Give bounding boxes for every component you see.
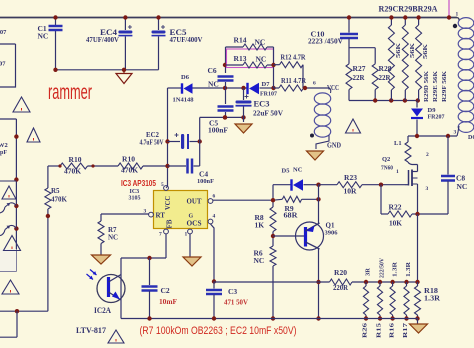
svg-text:NC: NC <box>208 80 219 89</box>
svg-text:OUT: OUT <box>187 197 202 206</box>
svg-text:NC: NC <box>256 55 267 64</box>
svg-text:100nF: 100nF <box>208 127 228 135</box>
svg-text:D5: D5 <box>282 168 291 175</box>
svg-text:W2: W2 <box>0 142 8 149</box>
svg-text:IC3 AP3105: IC3 AP3105 <box>121 178 156 188</box>
svg-text:R207: R207 <box>0 61 6 68</box>
svg-text:R29D 56K: R29D 56K <box>423 71 430 102</box>
svg-text:R20: R20 <box>334 268 347 277</box>
svg-text:R10: R10 <box>69 155 82 164</box>
svg-text:100nF: 100nF <box>197 178 214 185</box>
svg-text:56K: 56K <box>395 43 402 58</box>
svg-text:R5: R5 <box>51 187 60 195</box>
svg-text:Q1: Q1 <box>326 222 335 230</box>
svg-text:R17: R17 <box>402 322 409 338</box>
svg-text:R14: R14 <box>234 36 247 45</box>
svg-text:R22: R22 <box>389 203 402 212</box>
svg-text:470K: 470K <box>121 167 139 175</box>
svg-text:1: 1 <box>456 12 459 18</box>
svg-text:EC3: EC3 <box>254 99 270 109</box>
svg-text:22R: 22R <box>353 73 366 82</box>
svg-text:C6: C6 <box>208 66 217 75</box>
svg-text:22uF 50V: 22uF 50V <box>253 109 284 118</box>
svg-text:470K: 470K <box>51 196 68 204</box>
svg-text:NC: NC <box>255 38 266 47</box>
svg-text:FR107: FR107 <box>260 92 277 98</box>
svg-text:NC: NC <box>293 167 303 174</box>
svg-text:LTV-817: LTV-817 <box>76 326 106 335</box>
svg-text:C2: C2 <box>161 286 170 295</box>
svg-text:NC: NC <box>38 32 49 41</box>
svg-text:R26: R26 <box>362 322 369 338</box>
svg-text:NC: NC <box>457 182 468 191</box>
svg-text:Q2: Q2 <box>382 156 390 163</box>
svg-text:471 50V: 471 50V <box>224 299 248 307</box>
svg-text:222/50V: 222/50V <box>380 257 386 278</box>
svg-text:70pF: 70pF <box>0 150 7 156</box>
svg-text:2: 2 <box>426 152 429 158</box>
svg-text:1N4148: 1N4148 <box>173 97 195 104</box>
svg-text:R10: R10 <box>122 155 135 164</box>
svg-text:(R7 100kOm OB2263 ; EC2 10mF x: (R7 100kOm OB2263 ; EC2 10mF x50V) <box>140 325 297 337</box>
svg-text:1.3R: 1.3R <box>424 295 441 303</box>
svg-text:R12 4.7R: R12 4.7R <box>281 53 306 62</box>
svg-text:R13: R13 <box>234 54 247 63</box>
svg-text:D6: D6 <box>181 74 190 81</box>
svg-text:68R: 68R <box>284 212 299 220</box>
svg-text:47UF/400V: 47UF/400V <box>170 36 203 44</box>
svg-text:FR107: FR107 <box>0 29 7 36</box>
svg-text:FR207: FR207 <box>428 115 445 121</box>
svg-text:4.7uF 50V: 4.7uF 50V <box>140 139 164 147</box>
svg-text:RT: RT <box>156 212 166 220</box>
svg-text:R11 4.7R: R11 4.7R <box>281 76 306 85</box>
svg-text:VCC: VCC <box>327 84 339 92</box>
svg-text:DC: DC <box>468 135 474 141</box>
svg-text:6: 6 <box>213 194 216 200</box>
svg-text:VCC: VCC <box>164 196 172 210</box>
svg-text:rammer: rammer <box>48 81 92 104</box>
svg-text:1.3R: 1.3R <box>392 262 399 277</box>
svg-text:GND: GND <box>327 142 341 150</box>
svg-text:R29CR29BR29A: R29CR29BR29A <box>379 4 439 14</box>
svg-text:7: 7 <box>159 232 162 238</box>
svg-text:NC: NC <box>108 234 118 242</box>
svg-text:1K: 1K <box>255 221 265 230</box>
svg-text:R16: R16 <box>389 322 396 338</box>
svg-text:IC3: IC3 <box>130 189 140 195</box>
svg-text:220R: 220R <box>333 284 349 292</box>
svg-text:47UF/400V: 47UF/400V <box>86 36 119 44</box>
svg-text:56K: 56K <box>422 44 429 59</box>
svg-text:5: 5 <box>161 182 164 188</box>
svg-text:1.3R: 1.3R <box>405 262 412 277</box>
svg-text:4: 4 <box>213 214 216 220</box>
svg-text:NC: NC <box>254 256 265 265</box>
svg-text:3906: 3906 <box>325 230 339 237</box>
svg-text:470K: 470K <box>64 168 82 176</box>
svg-text:R29F 56K: R29F 56K <box>441 71 448 102</box>
svg-text:3: 3 <box>426 186 429 192</box>
svg-text:3: 3 <box>454 130 457 136</box>
svg-text:10K: 10K <box>389 219 402 228</box>
svg-text:10R: 10R <box>344 187 358 196</box>
svg-text:R27: R27 <box>353 64 366 73</box>
svg-text:1: 1 <box>185 232 188 238</box>
svg-text:OCS: OCS <box>187 219 202 228</box>
svg-text:C3: C3 <box>228 287 237 296</box>
svg-text:3R: 3R <box>365 268 372 276</box>
svg-text:R23: R23 <box>344 173 357 182</box>
svg-text:6: 6 <box>313 81 316 87</box>
svg-text:FB: FB <box>166 219 174 228</box>
svg-text:R29E 56K: R29E 56K <box>432 71 439 102</box>
svg-text:3105: 3105 <box>129 196 141 202</box>
svg-text:1: 1 <box>396 169 399 175</box>
svg-text:D7: D7 <box>262 81 271 88</box>
svg-text:IC2A: IC2A <box>94 306 111 315</box>
svg-text:7N60: 7N60 <box>381 166 393 172</box>
svg-text:L1: L1 <box>394 140 402 147</box>
svg-text:D9: D9 <box>428 107 437 114</box>
svg-text:2223 /450V: 2223 /450V <box>308 38 343 46</box>
svg-text:56K: 56K <box>409 43 416 58</box>
svg-text:10mF: 10mF <box>159 298 177 306</box>
svg-text:R15: R15 <box>376 322 383 338</box>
